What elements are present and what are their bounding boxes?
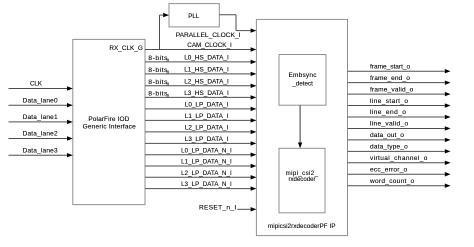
- svg-text:L0_LP_DATA_N_I: L0_LP_DATA_N_I: [181, 147, 232, 154]
- svg-text:Data_lane0: Data_lane0: [23, 97, 58, 104]
- svg-text:CAM_CLOCK_I: CAM_CLOCK_I: [187, 42, 232, 49]
- svg-text:frame_valid_o: frame_valid_o: [370, 86, 414, 93]
- svg-text:L3_LP_DATA_N_I: L3_LP_DATA_N_I: [181, 181, 232, 188]
- svg-text:L2_LP_DATA_I: L2_LP_DATA_I: [185, 125, 229, 132]
- svg-text:PARALLEL_CLOCK_I: PARALLEL_CLOCK_I: [176, 32, 241, 39]
- svg-text:Data_lane3: Data_lane3: [23, 147, 58, 154]
- svg-text:Data_lane1: Data_lane1: [23, 114, 58, 121]
- svg-text:Generic Interface: Generic Interface: [83, 123, 136, 130]
- svg-text:virtual_channel_o: virtual_channel_o: [370, 155, 428, 162]
- svg-text:8-bits: 8-bits: [148, 79, 168, 86]
- svg-text:L1_LP_DATA_I: L1_LP_DATA_I: [185, 113, 229, 120]
- svg-text:line_end_o: line_end_o: [370, 109, 406, 116]
- svg-text:8-bits: 8-bits: [148, 91, 168, 98]
- svg-text:line_valid_o: line_valid_o: [370, 121, 408, 128]
- svg-text:L2_HS_DATA_I: L2_HS_DATA_I: [184, 78, 229, 85]
- svg-text:_detect: _detect: [291, 80, 313, 87]
- svg-text:frame_end_o: frame_end_o: [370, 75, 410, 82]
- svg-text:Data_lane2: Data_lane2: [23, 131, 58, 138]
- svg-text:ecc_error_o: ecc_error_o: [370, 166, 408, 173]
- svg-text:mipicsi2rxdecoderPF IP: mipicsi2rxdecoderPF IP: [268, 223, 336, 230]
- svg-text:CLK: CLK: [30, 81, 43, 88]
- svg-text:L3_HS_DATA_I: L3_HS_DATA_I: [184, 90, 229, 97]
- svg-text:L0_HS_DATA_I: L0_HS_DATA_I: [184, 55, 229, 62]
- svg-text:8-bits: 8-bits: [148, 67, 168, 74]
- svg-text:L2_LP_DATA_N_I: L2_LP_DATA_N_I: [181, 170, 232, 177]
- svg-text:frame_start_o: frame_start_o: [370, 63, 410, 70]
- svg-text:data_type_o: data_type_o: [370, 144, 408, 151]
- svg-text:PLL: PLL: [188, 13, 200, 20]
- svg-text:8-bits: 8-bits: [148, 55, 168, 62]
- svg-text:L3_LP_DATA_I: L3_LP_DATA_I: [185, 136, 229, 143]
- svg-text:L0_LP_DATA_I: L0_LP_DATA_I: [185, 102, 229, 109]
- svg-text:rxdecoder: rxdecoder: [288, 176, 315, 183]
- svg-text:L1_LP_DATA_N_I: L1_LP_DATA_N_I: [181, 159, 232, 166]
- svg-text:word_count_o: word_count_o: [369, 178, 415, 185]
- svg-text:line_start_o: line_start_o: [370, 98, 408, 105]
- svg-text:data_out_o: data_out_o: [370, 132, 404, 139]
- svg-text:L1_HS_DATA_I: L1_HS_DATA_I: [184, 67, 229, 74]
- svg-text:Embsync: Embsync: [289, 72, 318, 79]
- svg-text:PolarFire IOD: PolarFire IOD: [88, 116, 129, 123]
- svg-text:RESET_n_I: RESET_n_I: [199, 205, 237, 212]
- svg-text:RX_CLK_G: RX_CLK_G: [109, 45, 142, 52]
